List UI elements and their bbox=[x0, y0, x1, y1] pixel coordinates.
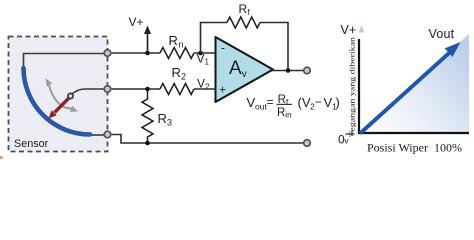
common terminal bbox=[304, 140, 311, 147]
svg-text:Tegangan yang diberikan: Tegangan yang diberikan bbox=[348, 37, 357, 137]
svg-text:=: = bbox=[267, 95, 274, 109]
svg-text:+: + bbox=[219, 84, 226, 96]
svg-text:R: R bbox=[277, 107, 285, 119]
V1 label bbox=[197, 52, 210, 67]
resistor Rf bbox=[227, 17, 260, 28]
node R3 bottom junction bbox=[145, 141, 150, 146]
wire arc-top to terminal 1 bbox=[24, 54, 104, 68]
sensor enclosure dashed box bbox=[9, 37, 108, 152]
node V1 bbox=[198, 51, 203, 56]
y-axis bottom tick bbox=[346, 132, 353, 137]
Rf value label bbox=[239, 2, 251, 17]
node R3 top junction bbox=[145, 87, 150, 92]
svg-text:-: - bbox=[221, 41, 225, 55]
svg-text:Sensor: Sensor bbox=[14, 138, 49, 150]
svg-text:f: f bbox=[286, 98, 289, 107]
R3 value label bbox=[158, 111, 173, 128]
op-amp output wire bbox=[272, 70, 303, 72]
svg-text:A: A bbox=[229, 58, 242, 79]
graph 0V label bbox=[338, 133, 349, 147]
corner artifact bbox=[0, 156, 3, 159]
node feedback/output junction bbox=[286, 68, 291, 73]
svg-text:V: V bbox=[197, 77, 205, 91]
svg-text:R: R bbox=[169, 33, 178, 48]
svg-text:V+: V+ bbox=[341, 23, 357, 37]
terminal 2 bbox=[104, 86, 111, 93]
y-axis top arrow mark bbox=[359, 26, 365, 33]
svg-text:−: − bbox=[315, 95, 322, 109]
svg-text:2: 2 bbox=[181, 72, 186, 82]
svg-text:V+: V+ bbox=[129, 15, 144, 29]
wiper arrow bbox=[49, 98, 70, 119]
svg-text:3: 3 bbox=[167, 118, 172, 128]
wire R2 to op-amp non-inverting input bbox=[194, 88, 216, 90]
svg-text:R: R bbox=[158, 111, 167, 126]
R1 value label bbox=[169, 33, 184, 50]
graph response arrow Vout bbox=[360, 42, 461, 134]
wire R1 to op-amp inverting input bbox=[194, 52, 216, 54]
svg-text:R: R bbox=[239, 2, 248, 16]
V2 label bbox=[197, 77, 210, 92]
bottom common rail bbox=[112, 135, 303, 144]
svg-text:2: 2 bbox=[205, 83, 210, 92]
wire arc-bottom to terminal 3 bbox=[90, 134, 104, 136]
resistor R3 bbox=[142, 89, 153, 143]
terminal 3 bbox=[104, 131, 111, 138]
V+ supply arrow bbox=[144, 26, 151, 54]
graph y-axis bbox=[358, 39, 360, 134]
svg-text:Posisi Wiper 100%: Posisi Wiper 100% bbox=[367, 141, 462, 155]
feedback wire up and across bbox=[201, 23, 228, 54]
R2 value label bbox=[172, 65, 187, 82]
svg-text:(V: (V bbox=[298, 95, 311, 110]
feedback wire down to output bbox=[260, 23, 288, 71]
rotation double arrow bbox=[46, 79, 79, 112]
wire terminal1 to R1 bbox=[112, 52, 160, 54]
svg-text:in: in bbox=[285, 111, 291, 120]
wire terminal2 to R2 bbox=[112, 88, 160, 90]
node: V+ junction bbox=[145, 51, 150, 56]
svg-text:1: 1 bbox=[205, 58, 210, 67]
svg-text:V: V bbox=[197, 52, 205, 66]
resistor R1 bbox=[160, 48, 194, 59]
svg-text:R: R bbox=[172, 65, 181, 80]
output terminal Vout bbox=[304, 67, 311, 74]
op-amp U1 bbox=[216, 37, 274, 102]
svg-text:v: v bbox=[242, 69, 247, 80]
svg-text:): ) bbox=[336, 95, 340, 110]
gain formula Vout = Rf/Rin (V2-V1) bbox=[247, 94, 340, 120]
resistor R2 bbox=[160, 84, 194, 95]
graph response fill bbox=[359, 34, 469, 133]
potentiometer track arc bbox=[24, 68, 91, 135]
svg-text:f: f bbox=[248, 8, 251, 17]
wiper pivot bbox=[68, 93, 73, 98]
graph x-axis bbox=[358, 132, 469, 134]
svg-text:n: n bbox=[179, 40, 184, 50]
svg-text:Vout: Vout bbox=[429, 27, 455, 41]
wire wiper pivot to terminal 2 bbox=[72, 89, 104, 95]
terminal 1 bbox=[104, 50, 111, 57]
